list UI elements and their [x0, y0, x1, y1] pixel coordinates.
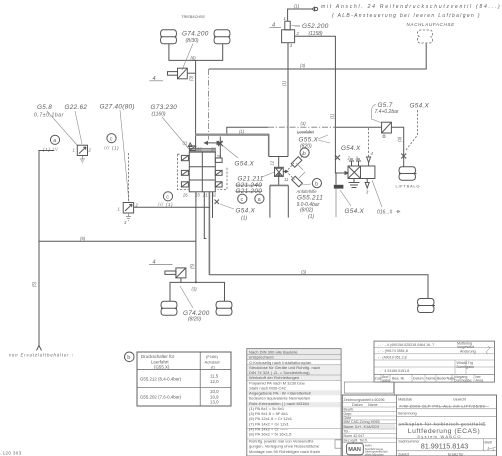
svg-text:(3): (3) — [188, 75, 193, 81]
svg-text:(3): (3) — [192, 287, 198, 292]
svg-text:b: b — [127, 355, 130, 361]
svg-text:Leerfahrt: Leerfahrt — [297, 130, 315, 135]
svg-text:3.120.303: 3.120.303 — [0, 451, 22, 456]
svg-text:G55.202 (7,6-0,4bar): G55.202 (7,6-0,4bar) — [140, 395, 182, 400]
svg-text:11: 11 — [284, 177, 288, 182]
svg-text:(8/02): (8/02) — [300, 208, 313, 214]
svg-text:7.4+0.2bar: 7.4+0.2bar — [375, 109, 399, 115]
svg-text:24: 24 — [210, 147, 216, 152]
svg-text:System WABCO: System WABCO — [417, 434, 461, 439]
svg-text:10,0: 10,0 — [210, 389, 219, 394]
svg-text:G27.40(80): G27.40(80) — [100, 104, 135, 111]
svg-text:Durchgabe: Durchgabe — [457, 365, 475, 369]
svg-text:21: 21 — [202, 193, 208, 198]
svg-text:Norm 42.047: Norm 42.047 — [344, 434, 365, 438]
svg-text:/// (1): /// (1) — [103, 145, 119, 150]
svg-text:(G55.X): (G55.X) — [154, 364, 170, 369]
svg-text:G54.X: G54.X — [410, 103, 430, 110]
svg-text:(5): (5) — [80, 236, 86, 241]
svg-text:4: 4 — [153, 259, 156, 265]
svg-text:Benennung: Benennung — [398, 412, 416, 416]
svg-text:Tol.-: Tol.- — [344, 430, 352, 434]
svg-text:von Ersatzluftbehälter ↑: von Ersatzluftbehälter ↑ — [9, 353, 75, 358]
svg-text:a: a — [258, 197, 261, 203]
svg-text:12: 12 — [270, 160, 275, 165]
svg-text:016...#: 016...# — [377, 210, 393, 216]
svg-text:IBM CAD-Zchng M065: IBM CAD-Zchng M065 — [344, 420, 380, 424]
svg-text:1: 1 — [118, 207, 120, 212]
svg-text:2: 2 — [493, 448, 495, 452]
svg-text:26: 26 — [182, 193, 188, 198]
svg-text:Ersatz für: Ersatz für — [448, 452, 464, 456]
svg-text:(t): (t) — [211, 364, 215, 369]
svg-text:(3): (3) — [301, 121, 307, 126]
svg-text:Bezugsfl. Tol.fr.: Bezugsfl. Tol.fr. — [344, 439, 368, 443]
svg-text:G55.X: G55.X — [299, 137, 319, 144]
svg-text:c: c — [166, 195, 169, 201]
svg-text:10,9: 10,9 — [210, 394, 219, 399]
svg-text:(8): (8) — [191, 56, 197, 61]
svg-text:G54.X: G54.X — [341, 145, 361, 152]
svg-text:b: b — [303, 151, 306, 157]
svg-text:13,0: 13,0 — [210, 400, 219, 405]
svg-text:- - · - 4 (49015A 025318 0464: - - · - 4 (49015A 025318 0464 16. 7 — [378, 343, 434, 347]
svg-text:Datum: Datum — [352, 403, 363, 407]
svg-text:(1) ///: (1) /// — [43, 147, 58, 152]
svg-text:G54.X: G54.X — [235, 161, 255, 168]
svg-text:G73.230: G73.230 — [151, 104, 178, 111]
svg-text:G74.200: G74.200 — [182, 31, 209, 38]
svg-text:Anfahrhilfe: Anfahrhilfe — [296, 189, 318, 194]
svg-text:4: 4 — [153, 76, 156, 82]
svg-text:Gewicht: Gewicht — [453, 398, 466, 402]
svg-text:Bea.-Nr.: Bea.-Nr. — [392, 377, 405, 381]
svg-text:- · - (99174 0551,8: - · - (99174 0551,8 — [378, 349, 408, 353]
svg-text:Nach DIN 300 alle Bauteile: Nach DIN 300 alle Bauteile — [249, 349, 298, 354]
svg-text:Name: Name — [368, 403, 378, 407]
svg-text:(3): (3) — [300, 63, 306, 68]
svg-text:(5): (5) — [32, 281, 37, 287]
svg-text:(1): (1) — [308, 214, 314, 220]
svg-text:1: 1 — [488, 447, 490, 451]
svg-text:( ALB-Ansteuerung bei leeren L: ( ALB-Ansteuerung bei leeren Luftbalgen … — [332, 13, 481, 19]
svg-text:(8/30): (8/30) — [186, 38, 199, 44]
svg-text:G22.62: G22.62 — [65, 104, 88, 111]
svg-text:BederNahe: BederNahe — [437, 377, 455, 381]
svg-text:(1): (1) — [294, 4, 300, 9]
svg-text:23: 23 — [194, 193, 200, 198]
svg-text:(3): (3) — [397, 136, 402, 142]
svg-text:G5.7: G5.7 — [378, 102, 393, 109]
svg-text:Vorgesetzt: Vorgesetzt — [457, 345, 474, 349]
svg-text:(F166): (F166) — [206, 354, 218, 359]
svg-text:/// (1): /// (1) — [157, 202, 173, 207]
svg-text:12,0: 12,0 — [210, 379, 219, 384]
svg-text:(1): (1) — [330, 113, 335, 119]
svg-text:a: a — [53, 138, 56, 144]
svg-text:- · 4 91159 0151,8: - · 4 91159 0151,8 — [380, 369, 409, 373]
svg-text:(8/20): (8/20) — [188, 316, 201, 322]
svg-text:G55.211: G55.211 — [297, 195, 323, 202]
svg-text:Montage von 90 Rohrbögen nach: Montage von 90 Rohrbögen nach thzzb — [249, 449, 321, 454]
svg-text:Druckschalter für: Druckschalter für — [141, 354, 175, 359]
svg-text:Name: Name — [426, 377, 436, 381]
svg-text:G5.8: G5.8 — [37, 104, 52, 111]
svg-text:Durchgabe: Durchgabe — [454, 379, 472, 383]
svg-text:MAN: MAN — [348, 447, 361, 453]
svg-text:Zeichnungsanteil k.60296: Zeichnungsanteil k.60296 — [344, 398, 385, 402]
svg-text:(5): (5) — [190, 263, 195, 269]
svg-text:(1): (1) — [241, 216, 247, 222]
svg-text:G54.X: G54.X — [345, 208, 365, 215]
svg-text:G54.X: G54.X — [236, 208, 256, 215]
svg-text:Bearb.: Bearb. — [344, 408, 355, 412]
svg-text:(1): (1) — [239, 129, 245, 134]
svg-text:LIFTBALG: LIFTBALG — [396, 184, 421, 189]
svg-text:G55.212 (8,4-0,4bar): G55.212 (8,4-0,4bar) — [140, 377, 182, 382]
svg-text:Maßstab: Maßstab — [398, 398, 412, 402]
svg-text:4: 4 — [272, 23, 275, 29]
svg-text:(820): (820) — [300, 144, 312, 150]
svg-text:1: 1 — [284, 16, 286, 21]
svg-text:(3): (3) — [301, 269, 307, 274]
svg-text:mit Anschl. 24 Reifendruckschu: mit Anschl. 24 Reifendruckschutzventil (… — [321, 4, 501, 10]
svg-text:Sachnummer: Sachnummer — [398, 440, 420, 444]
svg-text:Zust: Zust — [375, 377, 382, 381]
svg-text:32: 32 — [197, 147, 202, 152]
svg-text:- · (49019 051.2,8: - · (49019 051.2,8 — [378, 356, 407, 360]
svg-text:Anra: Anra — [476, 379, 484, 383]
svg-text:81.99115.8143: 81.99115.8143 — [421, 442, 468, 451]
svg-text:c: c — [241, 197, 244, 203]
svg-text:TRIEBACHSE: TRIEBACHSE — [181, 15, 205, 19]
svg-text:anlksplan für koiblnisch gestH: anlksplan für koiblnisch gestHaltE — [399, 422, 486, 427]
svg-text:11,5: 11,5 — [210, 374, 219, 379]
svg-text:G52.200: G52.200 — [302, 23, 329, 30]
svg-text:1: 1 — [73, 148, 75, 153]
svg-text:(1): (1) — [282, 80, 287, 86]
svg-text:(8) PA 16x2 = 5r 16x1,5: (8) PA 16x2 = 5r 16x1,5 — [249, 432, 292, 437]
svg-text:Zuletzt: Zuletzt — [398, 452, 409, 456]
svg-text:Baure. ILH . K1A/SCH: Baure. ILH . K1A/SCH — [344, 425, 380, 429]
svg-text:(1160): (1160) — [152, 112, 166, 118]
svg-text:NACHLAUFACHSE: NACHLAUFACHSE — [407, 22, 456, 27]
svg-text:Werk München: Werk München — [365, 452, 384, 456]
svg-text:31: 31 — [183, 141, 188, 146]
svg-text:c: c — [110, 136, 113, 142]
svg-text:Änderung: Änderung — [460, 350, 476, 354]
svg-text:b: b — [315, 181, 318, 187]
svg-text:Blatt: Blatt — [485, 440, 492, 444]
svg-text:Datum: Datum — [413, 377, 424, 381]
